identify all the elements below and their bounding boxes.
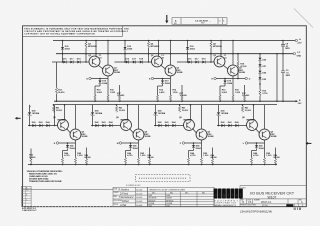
svg-text:REV: REV — [174, 23, 177, 25]
svg-text:+10V: +10V — [297, 43, 302, 45]
svg-text:47,000: 47,000 — [240, 65, 247, 68]
dashed callout box — [126, 175, 190, 187]
svg-text:i: i — [228, 193, 229, 198]
top margin down-arrow mark — [165, 15, 168, 23]
svg-text:56,000: 56,000 — [58, 92, 65, 94]
svg-text:3-1 W107-0-1 4C: 3-1 W107-0-1 4C — [126, 185, 141, 187]
sheet border — [23, 26, 307, 207]
svg-text:a: a — [235, 193, 238, 198]
top-right paper corner — [294, 9, 313, 28]
resistor R13 56,000 — [55, 62, 65, 102]
node: row-2 cell-A zener feed hook — [29, 104, 31, 107]
svg-text:A.Hall: A.Hall — [119, 204, 127, 207]
conversion chart — [148, 187, 215, 206]
svg-text:R.Haskins: R.Haskins — [119, 190, 130, 192]
resistor R18 47,000 and output terminal D — [233, 53, 251, 81]
wire: row-2 bottom return rail — [28, 164, 277, 166]
svg-text:MFD: MFD — [285, 48, 290, 50]
svg-text:D664: D664 — [148, 195, 152, 197]
svg-text:D.Flood: D.Flood — [120, 193, 129, 195]
svg-text:-15V: -15V — [297, 103, 302, 105]
svg-text:TRANSISTORS ARE DEC3639B: TRANSISTORS ARE DEC3639B — [29, 180, 62, 183]
svg-text:1-D-100-W107 →: 1-D-100-W107 → — [195, 20, 211, 22]
svg-text:TITLE: TITLE — [242, 188, 246, 190]
wire: ground rail with terminal C,F GND — [56, 53, 293, 55]
svg-text:10-5-66: 10-5-66 — [136, 190, 142, 192]
svg-text:MPS6534: MPS6534 — [166, 200, 173, 202]
svg-text:D662: D662 — [166, 205, 170, 207]
svg-text:10-6-66: 10-6-66 — [136, 197, 142, 199]
diodes D56 D57 D58 D59 series string with resistor R19 2,700 — [258, 53, 268, 102]
svg-text:DIODES ARE D664: DIODES ARE D664 — [29, 178, 49, 181]
svg-text:10-5-66: 10-5-66 — [136, 193, 142, 195]
signature block — [113, 187, 148, 206]
svg-text:C1: C1 — [219, 21, 221, 23]
svg-text:2,700: 2,700 — [262, 93, 268, 95]
svg-text:COPYRIGHT 1967 BY DIGITAL EQUI: COPYRIGHT 1967 BY DIGITAL EQUIPMENT CORP… — [24, 33, 95, 36]
zener D55 branch (hidden placeholder) — [55, 41, 57, 47]
title strip top rule — [23, 189, 113, 191]
svg-text:MFD: MFD — [286, 75, 291, 77]
svg-text:TRANSISTOR & DIODE CONVERSION: TRANSISTOR & DIODE CONVERSION CHART — [149, 188, 185, 191]
top-left copyright note box — [23, 26, 130, 37]
svg-text:2N3639: 2N3639 — [166, 198, 172, 200]
svg-text:l: l — [240, 193, 241, 198]
svg-text:W107: W107 — [201, 23, 205, 25]
title block — [240, 186, 306, 207]
wire: +10V rail with terminal A +10V — [53, 40, 295, 42]
svg-text:1B+|W107|P5A|W6|12|4|: 1B+|W107|P5A|W6|12|4| — [240, 209, 272, 213]
left margin arrow mark — [15, 117, 21, 120]
svg-text:II I II: II I II — [294, 206, 302, 211]
svg-text:d: d — [214, 193, 217, 198]
capacitor C9 .01 MFD — [281, 70, 291, 77]
resistor R39 56,000 — [29, 149, 36, 166]
svg-text:10-6-66: 10-6-66 — [136, 201, 142, 203]
svg-text:10-8-66: 10-8-66 — [136, 205, 142, 207]
svg-text:RESISTORS ARE 1/4W; 5%: RESISTORS ARE 1/4W; 5% — [29, 172, 57, 175]
svg-text:D664: D664 — [166, 195, 170, 197]
unless-otherwise notes — [27, 170, 63, 183]
perforation texture on bottom border — [23, 206, 113, 208]
wire: -15V rail with terminal B -15V, and row-2 supply rail — [54, 100, 296, 102]
top revision strip — [172, 18, 227, 25]
svg-text:UNLESS OTHERWISE INDICATED:: UNLESS OTHERWISE INDICATED: — [27, 170, 63, 173]
svg-text:R.Best: R.Best — [122, 200, 129, 203]
receiver cells row 1 (x3) with output terminals D, E, H — [52, 40, 125, 102]
svg-text:PRINTED CIRCUIT REV.: PRINTED CIRCUIT REV. — [241, 205, 257, 207]
svg-text:NUMBER: NUMBER — [254, 200, 260, 202]
svg-text:B: B — [223, 21, 224, 23]
svg-text:D662: D662 — [148, 205, 152, 207]
svg-text:g: g — [223, 193, 226, 198]
svg-text:C-AD-W107-0-1: C-AD-W107-0-1 — [22, 209, 37, 212]
svg-text:M: M — [117, 143, 119, 145]
svg-text:CORPORATION: CORPORATION — [214, 202, 236, 205]
svg-text:56,000: 56,000 — [29, 157, 36, 159]
revision table (left margin) — [22, 186, 32, 206]
svg-text:OHMS AND GOLD: OHMS AND GOLD — [29, 175, 48, 178]
svg-text:CHK'D: CHK'D — [114, 192, 120, 194]
svg-text:DEC6534: DEC6534 — [148, 200, 155, 202]
svg-text:T.Stockebrand: T.Stockebrand — [119, 196, 134, 199]
svg-text:DEC3639B: DEC3639B — [148, 198, 156, 200]
right margin arrow mark — [306, 142, 312, 145]
capacitor C8 .01 MFD with bypass wires — [276, 40, 290, 102]
svg-text:B: B — [26, 195, 27, 197]
svg-text:GND: GND — [297, 56, 302, 58]
digital (DEC) logo block — [214, 186, 243, 207]
svg-text:i: i — [220, 193, 221, 198]
svg-text:ECO NO.: ECO NO. — [262, 205, 269, 207]
receiver cells row 2 (x4) with output terminals K, M, P, L — [27, 104, 91, 165]
